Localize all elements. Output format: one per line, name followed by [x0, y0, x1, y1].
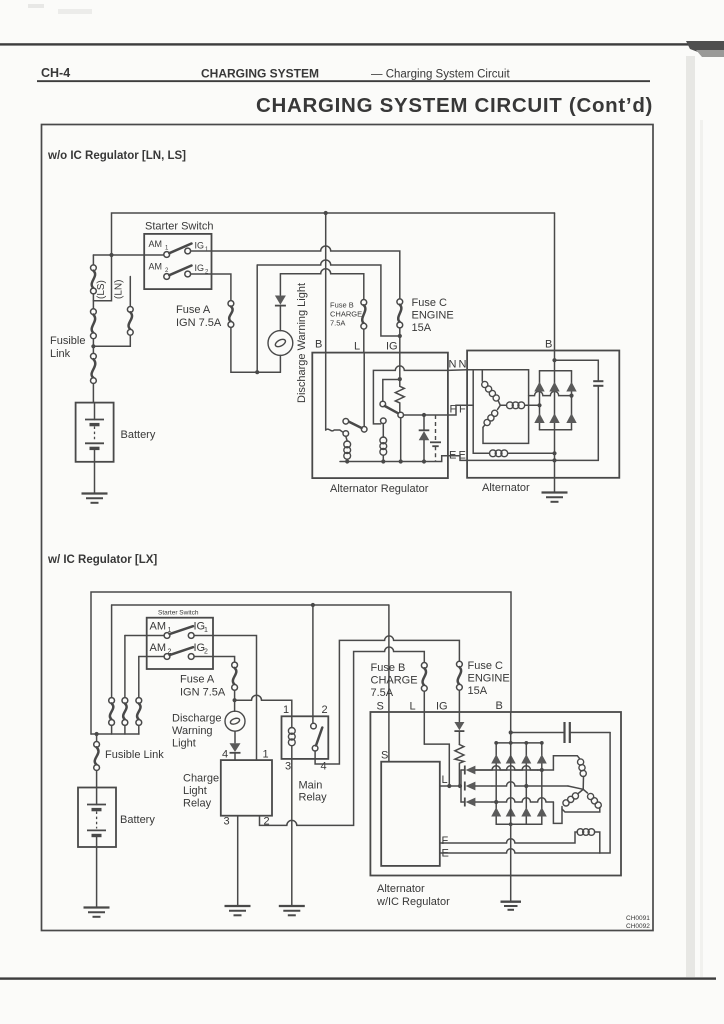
wire: B line flex lead to contact — [326, 429, 343, 432]
svg-text:IG: IG — [386, 341, 398, 353]
scan blob top-right — [686, 41, 724, 55]
rail junctions LX — [494, 741, 498, 745]
ground charge light relay — [225, 906, 251, 915]
wire: IG1 to charge light relay pin1 — [194, 636, 256, 761]
svg-text:Fuse A: Fuse A — [180, 674, 215, 686]
wire: battery to ground — [96, 847, 98, 907]
svg-text:L: L — [354, 341, 360, 353]
wire: pin4 to fuse C (hops S line) — [315, 636, 459, 764]
wire: N to UL coil — [481, 370, 483, 381]
svg-text:N: N — [449, 359, 457, 371]
rectifier top rail LX — [496, 742, 542, 744]
rectifier bottom rail LX — [496, 823, 542, 825]
wire: lamp bypass riser — [256, 265, 258, 372]
starter switch box — [144, 234, 211, 289]
wire: V1 riser — [472, 370, 474, 454]
fusible link 3 — [136, 657, 142, 735]
wire: E row — [467, 459, 598, 461]
node junction bottom rail B — [509, 822, 513, 826]
svg-text:AM: AM — [150, 642, 167, 654]
wire: AM1 to fusible link 2 — [125, 635, 164, 637]
wire: N sense (hops IG line) — [373, 366, 448, 424]
alternator box — [467, 351, 619, 478]
fuse B — [361, 300, 367, 353]
svg-text:1: 1 — [263, 749, 269, 761]
relay2 contact left — [381, 418, 387, 424]
svg-text:Relay: Relay — [183, 798, 212, 810]
stator coil right (phase to col1) — [500, 402, 539, 409]
wire: F output row — [404, 414, 448, 416]
relay2 coil — [380, 424, 387, 462]
node junction trio base — [458, 784, 462, 788]
switch contact AM1-IG1 — [164, 244, 192, 258]
wire: B line vertical — [325, 213, 327, 430]
svg-text:Starter Switch: Starter Switch — [158, 610, 199, 617]
alternator w/IC regulator box — [370, 712, 621, 876]
svg-text:2: 2 — [322, 704, 328, 716]
main relay box — [282, 716, 329, 759]
svg-text:B: B — [496, 700, 503, 712]
diode D1 above lamp — [275, 274, 286, 331]
capacitor C3 LX — [511, 722, 610, 743]
wire: IG2 to Fuse A — [191, 274, 231, 301]
node junction E-ground — [552, 458, 556, 462]
svg-text:Fusible Link: Fusible Link — [105, 749, 164, 761]
rectifier col3 LX — [521, 743, 531, 824]
svg-text:15A: 15A — [468, 685, 488, 697]
starter switch box LX — [147, 618, 213, 669]
phase row 1 (hops cols) — [538, 769, 542, 771]
svg-text:Relay: Relay — [299, 792, 328, 804]
page top rule — [0, 43, 724, 45]
wire: fuse A to lamp bottom — [231, 327, 281, 372]
node junction B cap tee LX — [509, 730, 513, 734]
svg-text:— Charging System Circuit: — Charging System Circuit — [371, 69, 510, 81]
diode D2 regulator — [419, 415, 430, 462]
svg-text:N: N — [459, 359, 467, 371]
svg-text:Alternator Regulator: Alternator Regulator — [330, 483, 429, 495]
wire: IG2 to fuse A — [194, 657, 235, 663]
fusible link main — [94, 734, 100, 788]
node junction phase-col1 — [537, 403, 541, 407]
node junction L — [447, 784, 451, 788]
phase row 3 (hops cols) — [492, 798, 553, 802]
stator Y phase right coil — [562, 789, 601, 812]
fuse C LX — [457, 661, 463, 721]
svg-text:IG: IG — [195, 263, 205, 273]
wire: LS bypass loop — [93, 255, 111, 301]
svg-text:B: B — [545, 339, 552, 351]
node junction B cap tee — [552, 358, 556, 362]
ground alternator — [542, 493, 568, 502]
svg-text:w/o IC Regulator [LN, LS]: w/o IC Regulator [LN, LS] — [47, 150, 186, 162]
battery B2 — [78, 788, 116, 848]
node junction row3 col1 — [494, 800, 498, 804]
fusible link (LN) — [127, 277, 133, 336]
svg-text:Main: Main — [299, 780, 323, 792]
trio feed rail — [460, 770, 462, 802]
node junction AM1 feed — [109, 253, 113, 257]
wire: top supply rail (LX) — [91, 592, 511, 734]
svg-text:Fuse C: Fuse C — [468, 660, 504, 672]
wire: AM1 feed — [93, 254, 163, 256]
fuse A LX — [232, 662, 238, 711]
wire: ground rail — [340, 456, 448, 462]
rectifier col1 LX — [491, 743, 501, 824]
wire: IG branch to relay2 pivot — [383, 380, 400, 402]
node junction IG feed — [398, 334, 402, 338]
node junction lamp bypass — [255, 370, 259, 374]
svg-text:2: 2 — [204, 649, 208, 656]
fusible link 1 — [109, 605, 115, 734]
svg-text:AM: AM — [149, 262, 163, 272]
svg-text:(LN): (LN) — [114, 280, 125, 299]
node junction on top rail at B line — [324, 211, 328, 215]
svg-text:L: L — [442, 774, 448, 786]
node junction rotor-ground — [552, 451, 556, 455]
svg-text:w/IC Regulator: w/IC Regulator — [376, 896, 450, 908]
relay1 blade — [349, 422, 362, 429]
wire: top supply rail — [112, 213, 555, 255]
relay2 blade — [385, 406, 398, 413]
rectifier top rail — [540, 370, 572, 372]
node junction row2 col3 — [524, 784, 528, 788]
main relay switch contacts — [311, 723, 323, 751]
svg-text:Charge: Charge — [183, 773, 219, 785]
capacitor C1 (dashed branch) — [430, 415, 441, 462]
relay2 contact lower — [398, 412, 404, 418]
rectifier col B LX — [506, 754, 516, 816]
node junction IG inside — [398, 377, 402, 381]
node junction row A col3 — [569, 394, 573, 398]
switch contact AM2-IG2 — [164, 266, 192, 280]
svg-text:Battery: Battery — [120, 814, 155, 826]
switch contact AM1-IG1 LX — [164, 626, 194, 638]
zener diode IG — [454, 722, 464, 745]
svg-text:L: L — [410, 701, 416, 713]
scan smudge top-left — [28, 4, 44, 8]
wire: S line — [388, 605, 390, 762]
ground battery LX — [84, 908, 110, 917]
wire: right return rail — [600, 733, 610, 854]
wire: AM2 to fusible link 3 — [139, 656, 164, 658]
wire: relay2 lower contact to rail — [400, 418, 402, 462]
svg-text:CH0092: CH0092 — [626, 923, 650, 930]
header underline — [37, 80, 650, 82]
svg-text:4: 4 — [222, 749, 228, 761]
fusible link 2 — [122, 636, 128, 735]
page edge artifact strip right — [686, 56, 695, 977]
wire: pin2 to fuse B (hops main relay ground line) — [260, 647, 425, 825]
wire: pin3 to ground — [237, 816, 239, 906]
resistor R charge — [455, 745, 464, 787]
svg-text:Discharge Warning Light: Discharge Warning Light — [296, 283, 308, 403]
relay1 contact lower — [343, 431, 349, 437]
svg-text:CHARGING SYSTEM CIRCUIT (Cont’: CHARGING SYSTEM CIRCUIT (Cont’d) — [256, 94, 653, 117]
svg-text:3: 3 — [285, 761, 291, 773]
stator Y phase 2 (left-down) — [526, 786, 583, 789]
stator coil upper-left — [482, 381, 501, 405]
wire: L path — [424, 744, 449, 786]
svg-text:1: 1 — [283, 704, 289, 716]
svg-text:(LS): (LS) — [96, 280, 107, 299]
svg-text:Fuse A: Fuse A — [176, 304, 211, 316]
diode trio 3 — [461, 798, 492, 807]
wire: bypass to IG node (hops B line) — [257, 260, 400, 336]
node junction bus — [95, 732, 99, 736]
ground alternator LX — [501, 902, 522, 910]
diode trio 1 — [461, 766, 538, 775]
svg-text:Starter Switch: Starter Switch — [145, 221, 213, 233]
wire: phase row A (hops col1, col B) — [529, 391, 572, 395]
wire: battery to ground — [94, 462, 96, 493]
rectifier column 1 — [534, 371, 544, 430]
svg-text:1: 1 — [204, 627, 208, 634]
charge light relay box — [221, 760, 272, 816]
fuse C — [397, 299, 403, 379]
svg-text:IG: IG — [195, 241, 205, 251]
phase row 2 (hops cols) — [492, 782, 526, 786]
fuse B LX — [421, 663, 427, 745]
rotor field coil LX — [440, 829, 600, 853]
svg-text:Warning: Warning — [172, 725, 213, 737]
fuse A top — [228, 301, 234, 328]
IC regulator box — [381, 762, 440, 866]
svg-text:IGN 7.5A: IGN 7.5A — [180, 687, 226, 699]
resistor R regulator — [395, 379, 404, 412]
ground battery top circuit — [82, 494, 108, 503]
svg-text:CHARGE: CHARGE — [371, 675, 418, 687]
lamp discharge warning light LX — [225, 711, 245, 743]
figure border box — [42, 125, 654, 931]
node junction fuse A out — [233, 698, 237, 702]
svg-text:B: B — [315, 339, 322, 351]
fusible link third — [91, 353, 97, 402]
svg-text:S: S — [381, 750, 388, 762]
svg-text:ENGINE: ENGINE — [468, 673, 510, 685]
rectifier column 3 — [566, 371, 576, 430]
wire: E row LX (hops B column) — [440, 849, 600, 853]
wire: fuse A to main relay coil (hops pin1 line) — [235, 695, 292, 716]
node junction diode tap — [422, 413, 426, 417]
svg-text:15A: 15A — [412, 322, 432, 334]
svg-text:Battery: Battery — [121, 429, 156, 441]
relay1 armature pivot — [361, 427, 367, 433]
svg-text:IG: IG — [436, 701, 448, 713]
diode trio 2 — [465, 782, 492, 791]
svg-text:AM: AM — [149, 239, 163, 249]
wire: L line into pivot — [363, 353, 365, 427]
svg-text:F: F — [442, 835, 449, 847]
svg-text:w/ IC Regulator [LX]: w/ IC Regulator [LX] — [47, 554, 157, 566]
svg-text:Light: Light — [172, 738, 196, 750]
wire: lamp top to Fuse B (hops B line) — [280, 269, 363, 300]
wire: N between boxes — [448, 369, 467, 372]
node junction row1 col4 — [540, 768, 544, 772]
svg-text:Fuse B: Fuse B — [371, 662, 406, 674]
svg-text:4: 4 — [321, 761, 327, 773]
wire: fusible link bus — [91, 733, 139, 735]
svg-text:Alternator: Alternator — [377, 883, 425, 895]
svg-text:3: 3 — [224, 816, 230, 828]
wire: second rail (LX) — [112, 604, 389, 606]
svg-text:Light: Light — [183, 785, 207, 797]
svg-text:Fuse C: Fuse C — [412, 297, 448, 309]
rotor field coil — [467, 405, 554, 456]
svg-text:CHARGE: CHARGE — [330, 310, 362, 319]
lamp discharge warning light — [268, 331, 293, 373]
fusible link second — [91, 309, 97, 354]
svg-text:ENGINE: ENGINE — [412, 310, 454, 322]
switch contact AM2-IG2 LX — [164, 647, 194, 659]
svg-text:Alternator: Alternator — [482, 482, 530, 494]
wire: E between boxes — [448, 456, 467, 461]
wire: L row to IC box — [440, 785, 461, 787]
fusible link (LS) — [91, 255, 97, 309]
svg-text:Fusible: Fusible — [50, 335, 85, 347]
wire: IG1 to Fuse C — [191, 246, 400, 299]
svg-text:CH-4: CH-4 — [41, 66, 70, 80]
rectifier column 2 (B) — [549, 382, 559, 423]
wire: B/ground column — [510, 712, 512, 901]
relay1 contact upper — [343, 419, 349, 425]
capacitor C2 — [555, 360, 604, 460]
svg-text:AM: AM — [150, 621, 167, 633]
node junction main relay tap — [311, 603, 315, 607]
svg-text:CHARGING SYSTEM: CHARGING SYSTEM — [201, 67, 319, 81]
wire: N row inside — [467, 370, 528, 444]
wire: pin2 line into switch — [312, 605, 314, 723]
alternator regulator box — [312, 353, 448, 479]
stator Y phase 1 (top) — [542, 756, 587, 790]
relay1 coil — [344, 436, 351, 461]
diode D3 below lamp — [230, 743, 241, 760]
svg-text:CH0091: CH0091 — [626, 915, 650, 922]
stator coil lower-left — [483, 405, 500, 427]
main relay coil — [288, 716, 295, 905]
battery B1 — [76, 403, 114, 462]
svg-text:Discharge: Discharge — [172, 713, 222, 725]
svg-text:Fuse B: Fuse B — [330, 301, 354, 310]
rail junctions — [345, 459, 349, 463]
relay2 pivot — [380, 401, 386, 407]
rectifier bottom rail — [540, 429, 572, 431]
bottom rule — [0, 977, 716, 979]
svg-text:S: S — [377, 701, 384, 713]
svg-text:7.5A: 7.5A — [330, 319, 345, 328]
ground main relay — [279, 906, 305, 915]
wire: B column — [554, 213, 556, 492]
wire: F between boxes — [448, 405, 467, 415]
rectifier col4 LX — [537, 743, 547, 824]
wire: LN branch join — [93, 335, 130, 346]
svg-text:IGN 7.5A: IGN 7.5A — [176, 317, 222, 329]
node junction fusible link — [91, 344, 95, 348]
stator Y phase 3 (coil lower-left) — [553, 789, 583, 823]
svg-text:Link: Link — [50, 348, 71, 360]
svg-text:7.5A: 7.5A — [371, 687, 394, 699]
